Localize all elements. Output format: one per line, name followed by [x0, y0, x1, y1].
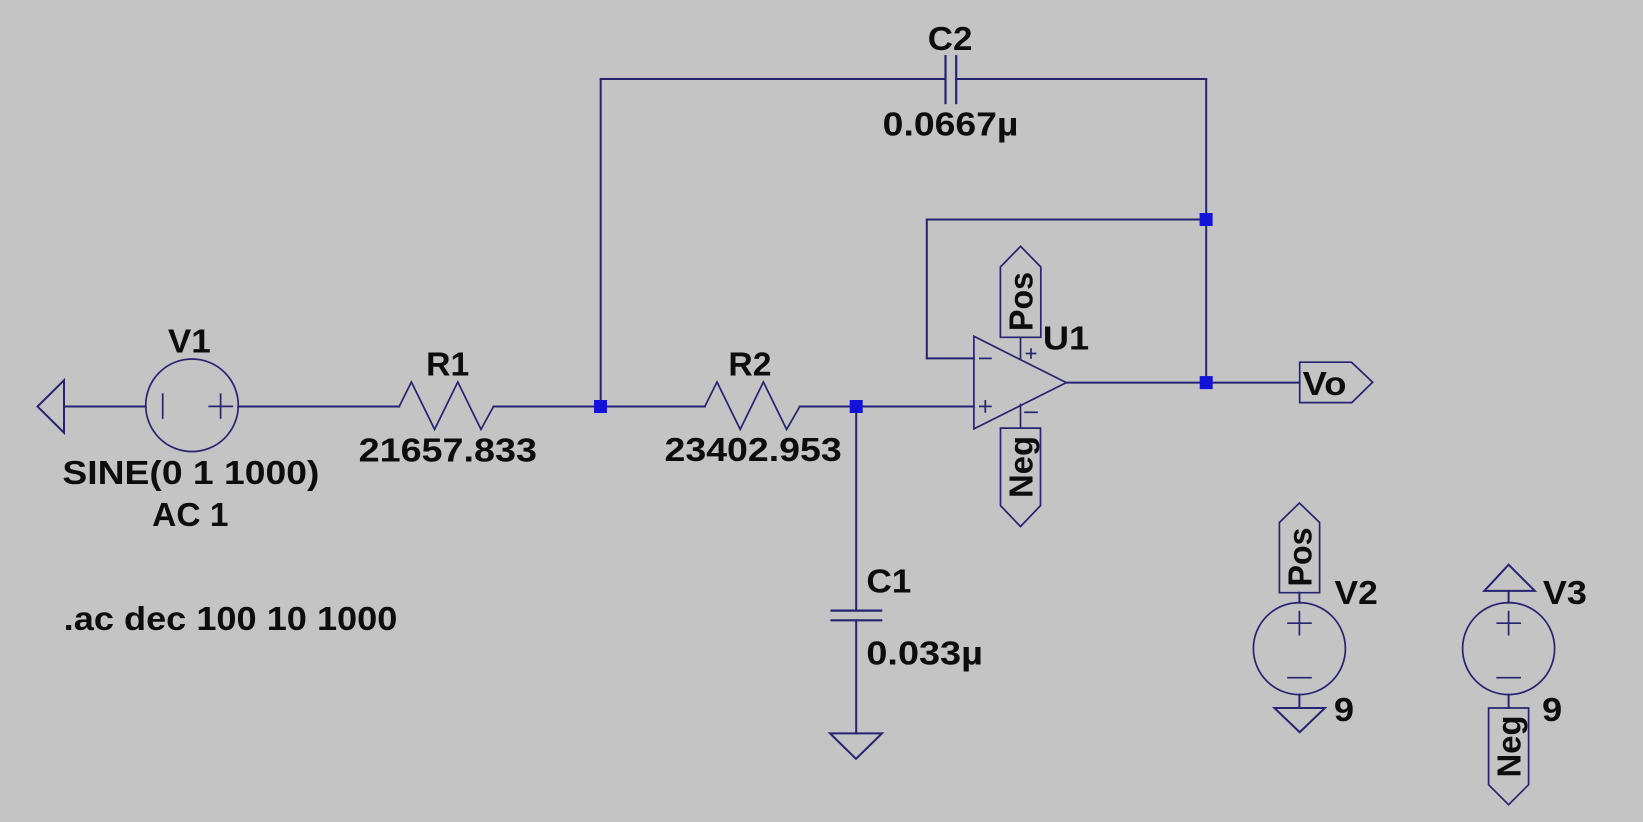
wire — [1066, 382, 1299, 384]
svg-text:C1: C1 — [866, 564, 911, 601]
svg-text:Pos: Pos — [1282, 528, 1319, 587]
wire — [800, 406, 974, 408]
svg-text:Vo: Vo — [1303, 366, 1347, 403]
svg-text:Neg: Neg — [1492, 716, 1529, 778]
svg-text:0.0667µ: 0.0667µ — [883, 107, 1019, 144]
svg-text:R1: R1 — [426, 346, 469, 383]
wire — [1508, 695, 1510, 708]
wire — [601, 78, 946, 80]
resistor R1 — [399, 382, 493, 429]
svg-text:Pos: Pos — [1004, 272, 1041, 331]
capacitor C2 — [946, 56, 957, 103]
wire — [927, 357, 974, 359]
ground — [1274, 708, 1325, 732]
ground flag left of V1 — [38, 380, 65, 432]
wire — [64, 406, 146, 408]
wire — [494, 406, 705, 408]
net flag Neg at V3 — [1489, 708, 1529, 805]
svg-text:C2: C2 — [928, 21, 973, 58]
voltage source V1 — [146, 359, 239, 452]
svg-text:9: 9 — [1542, 692, 1562, 729]
ground flag above V3 — [1484, 565, 1535, 591]
svg-text:U1: U1 — [1043, 321, 1089, 358]
svg-text:V3: V3 — [1543, 575, 1587, 612]
svg-text:Neg: Neg — [1004, 436, 1041, 498]
ground — [830, 733, 882, 758]
net flag Neg at U1 — [1001, 428, 1041, 526]
svg-text:0.033µ: 0.033µ — [866, 636, 983, 673]
wire — [927, 219, 1206, 221]
svg-text:9: 9 — [1334, 692, 1354, 729]
svg-text:SINE(0 1 1000): SINE(0 1 1000) — [62, 455, 319, 492]
op-amp U1 — [974, 336, 1066, 429]
net flag Vo — [1300, 362, 1373, 402]
svg-text:21657.833: 21657.833 — [359, 432, 537, 469]
node junction — [1200, 376, 1213, 389]
node junction — [1200, 213, 1213, 226]
svg-text:V2: V2 — [1335, 575, 1378, 612]
capacitor C1 — [832, 611, 882, 621]
wire — [1205, 79, 1207, 383]
net flag Pos at V2 — [1279, 503, 1319, 593]
voltage source V3 — [1463, 603, 1555, 695]
svg-text:V1: V1 — [168, 324, 211, 361]
wire — [956, 78, 1206, 80]
net flag Pos at U1 — [1000, 246, 1040, 337]
wire — [600, 79, 602, 407]
svg-text:23402.953: 23402.953 — [665, 432, 842, 469]
wire — [1508, 591, 1510, 603]
svg-text:AC 1: AC 1 — [152, 497, 228, 534]
svg-text:R2: R2 — [728, 346, 771, 383]
wire — [855, 620, 857, 733]
node junction — [594, 400, 607, 413]
voltage source V2 — [1253, 603, 1345, 695]
wire — [238, 406, 399, 408]
wire — [926, 220, 928, 359]
wire — [1298, 593, 1300, 603]
node junction — [850, 400, 863, 413]
svg-text:.ac dec 100 10 1000: .ac dec 100 10 1000 — [64, 601, 398, 638]
resistor R2 — [705, 382, 800, 429]
wire — [855, 407, 857, 611]
wire — [1298, 695, 1300, 708]
